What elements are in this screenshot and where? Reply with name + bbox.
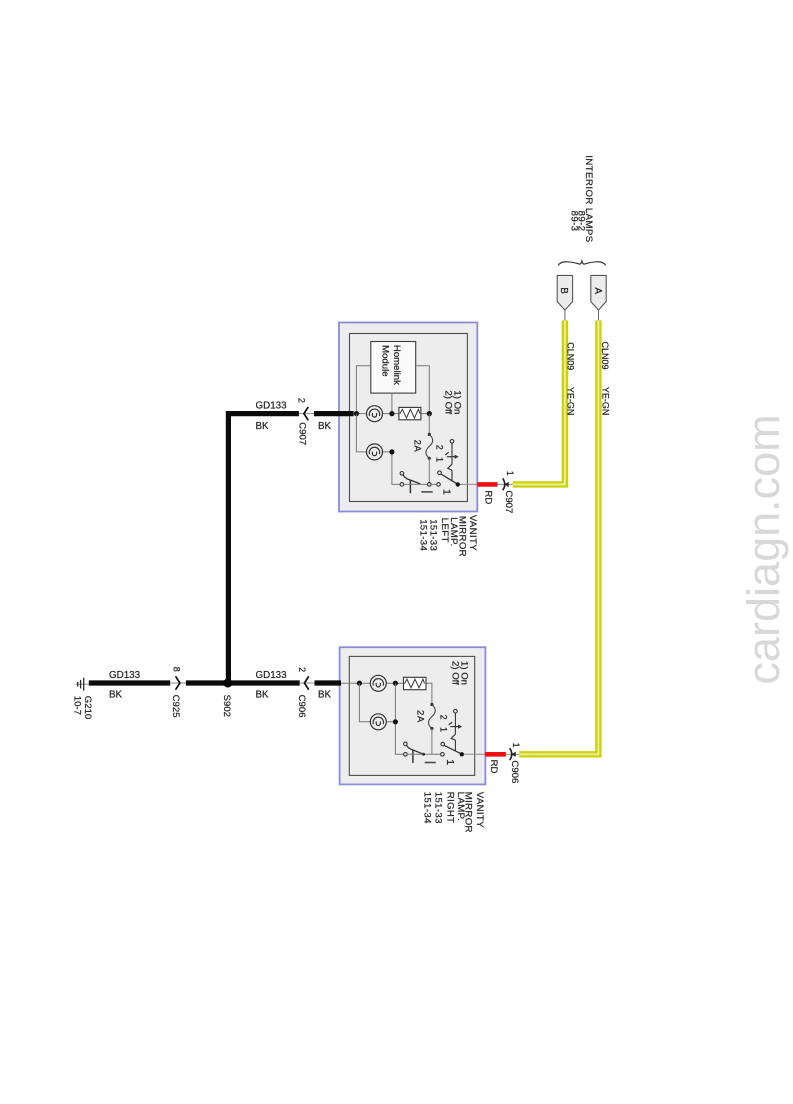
svg-text:GD133: GD133	[109, 670, 141, 681]
svg-text:C907: C907	[503, 490, 514, 513]
svg-text:YE-GN: YE-GN	[566, 387, 576, 416]
svg-text:C906: C906	[296, 695, 307, 718]
resistor R2	[404, 677, 427, 689]
wire BK into left lamp	[314, 411, 354, 416]
wire CLN09 YE-GN A	[519, 320, 598, 754]
svg-text:2: 2	[435, 445, 445, 450]
svg-text:2A: 2A	[414, 710, 425, 723]
ground G210	[76, 678, 89, 691]
connector A	[598, 310, 600, 320]
inline connector C906 arrow	[304, 677, 308, 689]
homelink module	[371, 342, 416, 394]
svg-text:CLN09: CLN09	[600, 342, 610, 370]
vanity mirror lamp LEFT housing	[339, 323, 477, 512]
svg-text:YE-GN: YE-GN	[600, 387, 610, 416]
svg-text:151-34: 151-34	[418, 519, 429, 551]
switch pole A box2	[404, 742, 423, 763]
svg-text:151-34: 151-34	[422, 792, 433, 824]
svg-text:1: 1	[438, 727, 448, 732]
svg-text:A: A	[592, 287, 603, 294]
wire thin at C906	[300, 682, 315, 684]
ground bar box2	[425, 762, 436, 764]
svg-text:RIGHT: RIGHT	[445, 792, 456, 824]
fuse 2A link box2	[430, 703, 433, 706]
svg-text:1: 1	[505, 471, 515, 476]
svg-text:C907: C907	[296, 422, 307, 445]
wire GD133 BK (ground to C925)	[89, 680, 170, 685]
bottom row line box2	[407, 753, 440, 755]
svg-text:S902: S902	[221, 695, 232, 717]
vanity mirror lamp RIGHT housing	[340, 647, 486, 784]
wire CLN09 YE-GN B	[513, 320, 565, 484]
resistor R1	[399, 407, 421, 419]
wire row1 box1	[354, 413, 430, 415]
lamp R1	[370, 675, 386, 691]
svg-text:BK: BK	[318, 421, 332, 432]
svg-text:C925: C925	[170, 695, 181, 718]
svg-text:C906: C906	[509, 760, 520, 783]
svg-text:Module: Module	[380, 345, 391, 376]
svg-text:cardiagn.com: cardiagn.com	[738, 414, 789, 684]
svg-text:2: 2	[297, 398, 307, 403]
lamp L2 branch box1	[356, 414, 400, 485]
svg-text:VANITY: VANITY	[474, 792, 485, 828]
inline connector C906 lamp side	[510, 748, 512, 760]
selector column box2	[449, 709, 459, 751]
svg-text:2A: 2A	[411, 440, 422, 453]
svg-text:2: 2	[297, 667, 307, 672]
svg-text:1: 1	[511, 743, 521, 748]
svg-text:GD133: GD133	[256, 670, 288, 681]
svg-text:CLN09: CLN09	[565, 342, 575, 370]
link to bottom row box2	[431, 729, 433, 755]
svg-text:VANITY: VANITY	[467, 515, 478, 551]
output wire to RD box2	[464, 753, 485, 755]
svg-text:151-33: 151-33	[433, 792, 444, 824]
svg-text:10-7: 10-7	[72, 696, 83, 715]
svg-text:RD: RD	[488, 760, 499, 774]
svg-text:8: 8	[172, 667, 182, 672]
svg-text:2) Off: 2) Off	[449, 661, 460, 685]
switch pole B box1	[437, 471, 457, 486]
svg-text:2) Off: 2) Off	[442, 390, 453, 414]
svg-text:Homelink: Homelink	[391, 345, 402, 385]
svg-text:BK: BK	[256, 689, 270, 700]
inline connector C907 lamp side	[503, 478, 505, 490]
svg-text:RD: RD	[482, 490, 493, 504]
switch pole B box2	[441, 742, 461, 756]
svg-text:1: 1	[444, 759, 456, 765]
wire BK into right lamp	[315, 680, 342, 685]
switch pole A box1	[400, 472, 420, 494]
selector column box1	[445, 440, 455, 482]
wire row1 box2	[341, 683, 432, 703]
fuse 2A link box1	[428, 414, 430, 434]
wire RD box1	[477, 482, 497, 487]
wire thin at C907	[299, 413, 314, 415]
svg-text:BK: BK	[256, 421, 270, 432]
node dot lamp L2 out	[389, 449, 394, 454]
brace to interior lamps	[558, 261, 605, 265]
wire thin at C925	[170, 682, 186, 684]
inline connector C907 arrow	[304, 408, 308, 420]
lamp R2 branch box2	[359, 683, 404, 754]
lamp L2	[367, 444, 383, 460]
svg-text:LEFT: LEFT	[439, 518, 450, 543]
svg-text:BK: BK	[318, 689, 332, 700]
svg-text:89-3: 89-3	[568, 211, 579, 232]
ground bar box1	[421, 491, 432, 493]
wire RD box2	[485, 752, 506, 757]
svg-text:1: 1	[441, 489, 453, 495]
splice S902	[223, 679, 232, 688]
output wire to RD box1	[460, 483, 477, 485]
svg-text:G210: G210	[82, 696, 93, 719]
inline connector C925 arrow	[176, 677, 180, 689]
lamp R2	[370, 714, 386, 730]
svg-text:1: 1	[435, 457, 445, 462]
svg-text:B: B	[558, 287, 569, 294]
node dots row1	[354, 411, 359, 416]
svg-text:GD133: GD133	[256, 400, 288, 411]
bottom row line box1	[404, 483, 437, 485]
svg-text:2: 2	[438, 715, 448, 720]
wire GD133 riser (S902 up to C907)	[228, 414, 299, 683]
lamp L1	[367, 406, 383, 422]
svg-text:BK: BK	[109, 689, 123, 700]
wire GD133 BK (C925 to C906 through S902)	[186, 680, 300, 685]
connector B	[564, 310, 566, 320]
link to bottom row box1	[428, 458, 430, 482]
homelink connection wires	[356, 366, 429, 412]
